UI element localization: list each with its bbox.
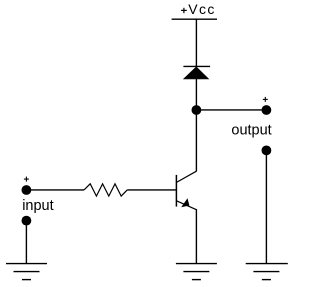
diode D1 cathode bar [183,65,210,67]
transistor Q1 base bar [175,175,177,207]
diode D1 triangle [184,67,209,79]
transistor Q1 emitter arrow [181,198,189,207]
wire resistor to transistor base [127,189,176,191]
svg-text:Vcc: Vcc [188,1,216,17]
ground left [6,264,47,280]
node junction dot [192,105,202,115]
svg-text:input: input [22,198,53,214]
wire Vcc bar to diode cathode [195,19,197,66]
ground middle [176,264,217,280]
terminal input- dot [22,216,32,226]
wire junction to output terminal [196,109,266,111]
wire emitter to ground [195,209,197,264]
terminal output- dot [262,146,272,156]
terminal input+ dot [22,185,32,195]
input plus sign [24,177,29,182]
power rail label +Vcc plus sign [181,8,187,13]
resistor R1 [84,184,127,196]
transistor Q1 collector lead [177,171,197,182]
terminal output+ dot [262,105,272,115]
svg-text:output: output [231,123,271,139]
wire output- terminal to ground [265,150,267,263]
wire diode anode to collector through junction [195,79,197,172]
wire input terminal to resistor [26,189,84,191]
output plus sign [263,97,268,102]
transistor Q1 emitter lead [177,201,197,210]
power rail bar +Vcc [172,18,217,20]
ground right [246,264,288,280]
wire input- terminal to ground [25,221,27,264]
